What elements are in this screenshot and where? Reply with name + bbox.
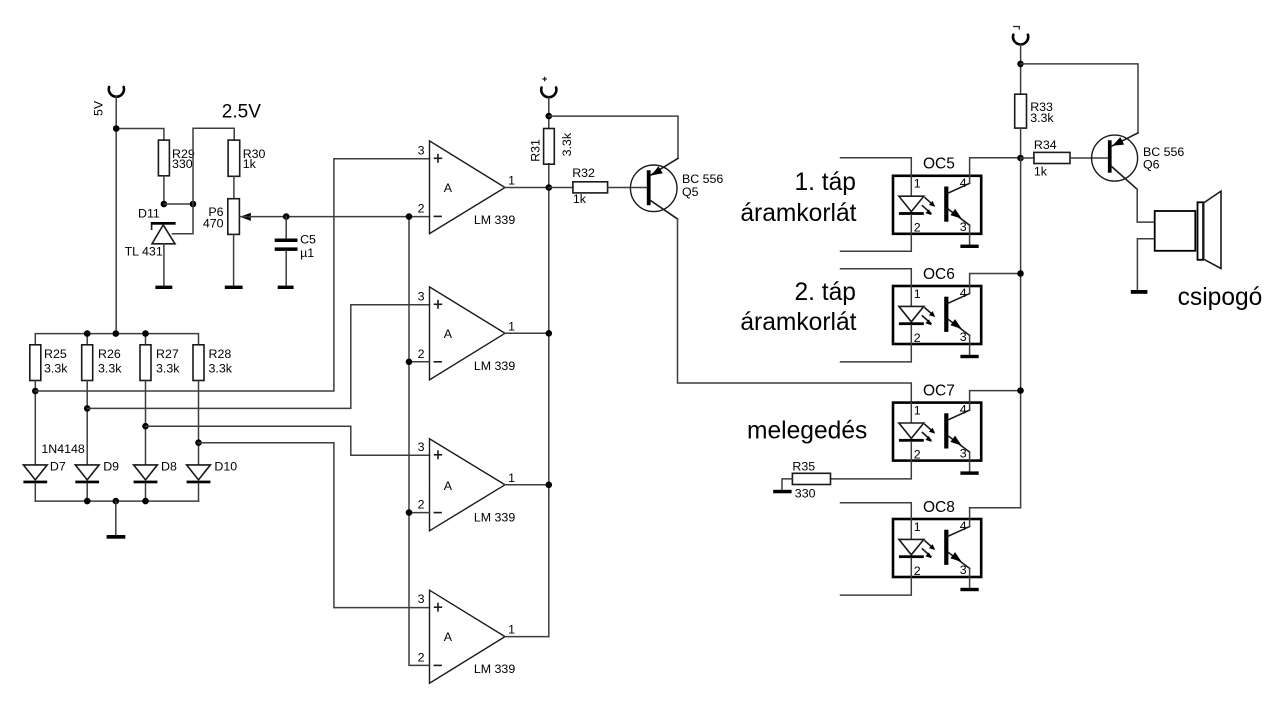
resistor R34 (1034, 152, 1070, 163)
svg-text:3: 3 (418, 289, 425, 303)
wire R26 to diode (86, 381, 88, 465)
minus mark A4 (434, 664, 441, 666)
svg-text:1N4148: 1N4148 (41, 442, 85, 456)
svg-text:R333.3k: R333.3k (1030, 100, 1054, 125)
OC5 emitter wire to ground (969, 225, 971, 244)
ground R35 (773, 490, 791, 494)
svg-text:BC 556Q6: BC 556Q6 (1143, 145, 1184, 172)
OC5 light arrows (925, 198, 934, 206)
wire out bus to R32 (549, 187, 573, 189)
OC5 input wire (841, 158, 912, 176)
OC7 ground (960, 471, 978, 474)
op-amp comparator A2 LM339 (430, 287, 506, 380)
svg-text:OC7: OC7 (923, 382, 955, 399)
OC5 LED (899, 196, 924, 211)
Q5 emitter (651, 158, 678, 175)
svg-text:A: A (444, 181, 453, 195)
OC8 emitter wire to ground (969, 568, 971, 587)
svg-text:2: 2 (418, 651, 425, 665)
svg-text:2: 2 (914, 221, 921, 235)
junction R31 top (546, 113, 553, 120)
wire supply to R31 (548, 97, 550, 128)
minus mark A1 (434, 215, 441, 217)
svg-text:OC8: OC8 (923, 499, 955, 516)
junction gbus D8 (142, 498, 149, 505)
svg-text:D10: D10 (214, 459, 237, 473)
OC6 phototransistor bar (944, 297, 948, 332)
OC7 LED (899, 423, 924, 438)
wiper arrow P6 (240, 213, 251, 221)
wire R35 to ground (782, 479, 792, 490)
diode D9 (75, 465, 99, 480)
OC5 collector wire to bus (970, 158, 1021, 184)
OC5 emitter (948, 209, 969, 225)
OC6 light arrows (925, 308, 934, 316)
wire R32 to Q5 base (608, 187, 647, 189)
resistor R30 (228, 140, 240, 176)
resistor R31 (544, 129, 555, 165)
svg-text:3: 3 (960, 330, 967, 344)
svg-text:1: 1 (508, 471, 515, 485)
svg-text:1k: 1k (1034, 164, 1048, 178)
junction out A1 (546, 184, 553, 191)
op-amp comparator A3 LM339 (430, 439, 506, 531)
resistor R27 (140, 345, 151, 381)
wire to C5 (285, 217, 287, 239)
svg-text:1: 1 (914, 520, 921, 534)
wire minus reference bus (409, 217, 430, 666)
junction minus A2 (406, 359, 413, 366)
diode D7 (23, 465, 47, 480)
wire R30 to P6 (233, 176, 235, 198)
OC5 ground (960, 245, 978, 248)
svg-text:D7: D7 (50, 459, 66, 473)
OC6 input wire (841, 269, 912, 286)
OC8 light arrows (925, 541, 934, 549)
svg-text:2: 2 (418, 202, 425, 216)
svg-text:A: A (444, 479, 453, 493)
svg-text:R263.3k: R263.3k (98, 347, 122, 376)
resistor R35 (792, 473, 830, 484)
OC6 emitter (948, 320, 969, 336)
svg-text:330: 330 (795, 487, 816, 501)
power symbol right (1013, 35, 1028, 45)
OC7 collector wire to bus (970, 391, 1021, 411)
wire 5V bus top (35, 334, 198, 345)
svg-text:5V: 5V (92, 100, 106, 116)
svg-text:D9: D9 (103, 459, 119, 473)
wire R25 to diode (34, 381, 36, 465)
svg-text:1: 1 (508, 623, 515, 637)
wire P6 to ground (233, 234, 235, 285)
resistor R32 (573, 182, 608, 193)
wire to Q6 emitter (1021, 64, 1139, 133)
OC6 emitter wire to ground (969, 335, 971, 354)
OC5 phototransistor bar (944, 187, 948, 222)
svg-text:D11: D11 (138, 207, 160, 221)
speaker body (1155, 211, 1196, 251)
diode D10 (187, 465, 211, 480)
junction R25 tap (32, 388, 39, 395)
power symbol + (541, 88, 556, 98)
Q5 emitter arrow (651, 166, 663, 175)
svg-text:A: A (444, 630, 453, 644)
OC8 LED cathode wire (910, 558, 912, 577)
OC7 LED anode wire (910, 403, 912, 423)
wire C5 to ground (285, 251, 287, 286)
svg-text:R31: R31 (528, 139, 542, 162)
wire R34 to Q6 base (1070, 157, 1108, 159)
svg-text:LM 339: LM 339 (474, 359, 515, 373)
svg-text:4: 4 (960, 403, 967, 417)
wire Q5 collector to OC7 (678, 219, 912, 403)
minus mark A3 (434, 512, 441, 514)
ground C5 (278, 286, 294, 289)
capacitor C5 (275, 239, 298, 243)
svg-text:BC 556Q5: BC 556Q5 (682, 172, 723, 199)
junction C5 tap (283, 213, 290, 220)
svg-text:2: 2 (418, 347, 425, 361)
svg-text:2.5V: 2.5V (222, 102, 261, 123)
wire net R26 to comparator A2+ (87, 305, 429, 409)
OC8 phototransistor bar (944, 530, 948, 565)
svg-text:LM 339: LM 339 (474, 511, 515, 525)
junction 2.5V node (190, 201, 197, 208)
svg-text:1: 1 (508, 174, 515, 188)
junction Q6 emitter feed (1017, 61, 1024, 68)
OC8 collector wire to bus (970, 508, 1021, 527)
wire 2.5V reference feed (240, 216, 429, 218)
OC7 emitter wire to ground (969, 452, 971, 471)
optocoupler OC7 body (893, 403, 981, 461)
svg-text:A: A (444, 327, 453, 341)
junction R26 tap (84, 405, 91, 412)
wire R27 to diode (145, 381, 147, 465)
wire net R28 to comparator A4+ (199, 443, 430, 608)
wire D9 to ground bus (86, 483, 88, 501)
wire output A2 (505, 332, 549, 334)
OC6 LED (899, 306, 924, 321)
svg-text:áramkorlát: áramkorlát (740, 200, 856, 227)
svg-text:R35: R35 (792, 460, 815, 474)
svg-text:1k: 1k (573, 192, 587, 206)
Q6 emitter (1112, 133, 1138, 146)
wire output A1 (505, 187, 549, 189)
OC6 collector wire to bus (970, 274, 1021, 294)
wire TL431 reference (173, 204, 194, 234)
OC7 emitter (948, 436, 969, 452)
OC5 collector (948, 183, 970, 193)
optocoupler OC6 body (893, 286, 981, 344)
svg-text:C5µ1: C5µ1 (300, 233, 316, 260)
OC7 LED cathode wire (910, 442, 912, 461)
svg-text:LM 339: LM 339 (474, 213, 515, 227)
OC8 emitter arrow (950, 552, 961, 562)
svg-text:2: 2 (914, 331, 921, 345)
OC8 return wire (841, 577, 912, 595)
svg-text:R34: R34 (1034, 138, 1057, 152)
power symbol 5V (109, 87, 124, 97)
OC6 LED cathode wire (910, 325, 912, 344)
OC6 collector (948, 294, 970, 304)
svg-text:R29330: R29330 (172, 147, 195, 171)
svg-text:2: 2 (914, 447, 921, 461)
potentiometer P6 (228, 199, 240, 235)
svg-text:TL 431: TL 431 (125, 245, 163, 259)
svg-text:1: 1 (508, 319, 515, 333)
op-amp comparator A4 LM339 (430, 590, 506, 683)
wire D11 to ground (163, 244, 165, 286)
OC7 return wire to R35 (831, 461, 912, 479)
svg-text:R301k: R301k (243, 147, 266, 171)
svg-text:2: 2 (418, 498, 425, 512)
svg-text:3: 3 (960, 447, 967, 461)
wire ground bus bottom (35, 500, 198, 502)
wire R29 to D11 (163, 176, 165, 204)
svg-text:R253.3k: R253.3k (44, 347, 68, 376)
junction gbus stem (113, 498, 120, 505)
transistor Q6 body (1092, 135, 1138, 181)
svg-text:3.3k: 3.3k (560, 132, 574, 156)
svg-text:3: 3 (418, 592, 425, 606)
OC6 ground (960, 355, 978, 358)
svg-text:áramkorlát: áramkorlát (740, 309, 856, 336)
svg-text:4: 4 (960, 176, 967, 190)
svg-text:csipogó: csipogó (1178, 284, 1263, 311)
junction bus R27 (142, 330, 149, 337)
svg-text:2. táp: 2. táp (794, 279, 856, 306)
svg-text:1: 1 (914, 403, 921, 417)
junction gbus D9 (84, 498, 91, 505)
ground speaker (1131, 290, 1148, 294)
ground network (107, 535, 126, 539)
svg-text:1. táp: 1. táp (794, 169, 856, 196)
junction bus OC6 (1017, 270, 1024, 277)
OC8 collector (948, 527, 970, 537)
wire node to R34 (1021, 157, 1034, 159)
junction 5V node (113, 125, 120, 132)
svg-text:3: 3 (960, 220, 967, 234)
svg-text:4: 4 (960, 519, 967, 533)
wire to Q5 emitter (549, 116, 678, 158)
OC7 collector (948, 410, 970, 420)
wire ground stem (115, 501, 117, 535)
OC6 LED anode wire (910, 286, 912, 306)
OC8 LED (899, 539, 924, 554)
ground D11 (155, 286, 172, 289)
svg-text:P6470: P6470 (203, 205, 224, 230)
wire D10 to ground bus (198, 483, 200, 501)
wire output bus (548, 164, 550, 637)
plus mark A2 (435, 303, 442, 305)
wire R28 to diode (198, 381, 200, 465)
plus mark A1 (435, 157, 442, 159)
svg-text:R273.3k: R273.3k (156, 347, 180, 376)
OC5 LED anode wire (910, 176, 912, 196)
minus mark A2 (434, 361, 441, 363)
wire D7 to ground bus (34, 483, 36, 501)
wire Q6 collector to speaker (1137, 189, 1155, 222)
OC8 ground (960, 588, 978, 591)
wire 5V rail down (115, 97, 117, 334)
transistor Q5 body (630, 165, 677, 212)
wire speaker return (1137, 239, 1154, 290)
svg-text:R32: R32 (572, 166, 595, 180)
OC8 emitter (948, 553, 969, 569)
svg-text:2: 2 (914, 564, 921, 578)
svg-text:OC6: OC6 (923, 266, 955, 283)
svg-text:R283.3k: R283.3k (209, 347, 233, 376)
diode D11 TL431 body (152, 225, 175, 244)
Q6 base bar (1108, 140, 1112, 172)
svg-text:1: 1 (914, 287, 921, 301)
wire 5V to R29 (116, 129, 164, 141)
resistor R28 (193, 345, 204, 381)
OC5 LED cathode wire (910, 215, 912, 234)
wire output A4 (505, 636, 549, 638)
svg-text:3: 3 (960, 563, 967, 577)
plus mark A3 (435, 454, 442, 456)
OC6 return wire (841, 344, 912, 362)
diode D8 (134, 465, 158, 480)
junction R34 node (1017, 155, 1024, 162)
svg-text:OC5: OC5 (923, 156, 955, 173)
OC6 emitter arrow (950, 319, 961, 329)
junction R27 tap (142, 423, 149, 430)
svg-text:4: 4 (960, 286, 967, 300)
junction bus OC7 (1017, 387, 1024, 394)
svg-text:1: 1 (914, 177, 921, 191)
wire net R25 to comparator A1+ (35, 159, 429, 391)
junction minus A3 (406, 509, 413, 516)
svg-text:LM 339: LM 339 (474, 662, 515, 676)
OC7 light arrows (925, 425, 934, 433)
optocoupler OC8 body (893, 519, 981, 577)
svg-text:melegedés: melegedés (747, 418, 867, 445)
speaker horn (1204, 191, 1221, 268)
optocoupler OC5 body (893, 176, 981, 234)
wire D8 to ground bus (145, 483, 147, 501)
op-amp comparator A1 LM339 (430, 141, 506, 234)
junction out A2 (546, 330, 553, 337)
svg-text:D8: D8 (161, 459, 177, 473)
junction out A3 (546, 482, 553, 489)
junction R29/D11 (161, 201, 168, 208)
resistor R25 (30, 345, 41, 381)
OC8 LED anode wire (910, 519, 912, 539)
Q5 collector (651, 201, 678, 220)
wire main collector bus (970, 158, 1021, 508)
wire 2.5V to R30 (193, 128, 234, 204)
junction R28 tap (195, 439, 202, 446)
svg-text:3: 3 (418, 143, 425, 157)
OC8 input wire (841, 503, 912, 519)
resistor R26 (82, 345, 93, 381)
OC5 emitter arrow (950, 209, 961, 219)
diode D11 TL431 cathode bar (151, 222, 176, 225)
wire R33 to node (1020, 128, 1022, 158)
junction bus R26 (84, 330, 91, 337)
Q5 base bar (647, 170, 651, 205)
OC7 emitter arrow (950, 436, 961, 446)
junction minus A1 (406, 213, 413, 220)
Q6 emitter arrow (1112, 137, 1124, 146)
wire minus stub A2 (409, 361, 430, 363)
Q6 collector (1112, 167, 1138, 190)
wire output A3 (505, 484, 549, 486)
resistor R29 (158, 140, 169, 176)
OC5 return wire (841, 234, 912, 252)
plus mark A4 (435, 606, 442, 608)
resistor R33 (1015, 94, 1027, 128)
wire minus stub A3 (409, 512, 430, 514)
wire net R27 to comparator A3+ (146, 426, 430, 455)
wire node to 2.5V loop (164, 203, 193, 205)
wire supply to R33 (1020, 44, 1022, 94)
ground P6 (225, 286, 243, 289)
svg-text:3: 3 (418, 440, 425, 454)
junction bus 5V feed (113, 330, 120, 337)
OC7 phototransistor bar (944, 413, 948, 448)
